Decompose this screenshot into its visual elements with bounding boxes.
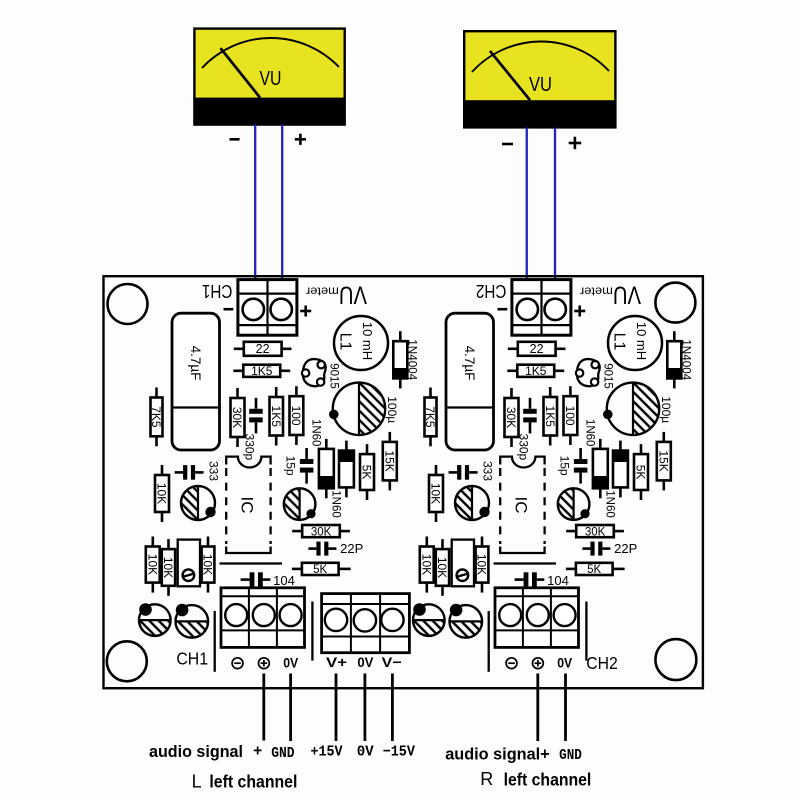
svg-text:22: 22 [256, 342, 270, 356]
svg-text:0V: 0V [357, 744, 374, 761]
mounting hole top-right [655, 283, 695, 323]
label R [480, 769, 493, 789]
wire stub CH1 plus [262, 674, 265, 741]
label CH2 (rotated, top connector) [476, 281, 507, 302]
PCB board outline [104, 276, 703, 688]
svg-text:1N4004: 1N4004 [406, 339, 418, 381]
svg-text:333: 333 [207, 461, 221, 481]
wire M1+ to CH1 connector [281, 125, 283, 280]
label CH1 (bottom) [176, 649, 208, 669]
transistor 9015 [302, 359, 340, 389]
label GND (right) [559, 747, 582, 764]
svg-text:330p: 330p [243, 434, 257, 461]
wire M1- to CH1 connector [254, 125, 256, 280]
capacitor 100u electrolytic [329, 383, 399, 436]
mounting hole top-left [108, 284, 148, 324]
VU meter M1 scale arc [202, 38, 339, 68]
label CH1 (rotated, top connector) [202, 281, 233, 302]
pin label V- [382, 654, 402, 670]
diode 1N4004 [393, 331, 417, 388]
svg-text:CH2: CH2 [586, 653, 618, 673]
capacitor 330p [243, 398, 263, 461]
terminal + label (M2) [569, 137, 582, 150]
pin label V+ [326, 654, 347, 670]
connector pin + label [300, 306, 311, 317]
resistor 100 [289, 386, 303, 445]
diode 1N60 (second) [330, 441, 354, 518]
svg-text:VU: VU [339, 280, 367, 308]
mounting hole bottom-right [655, 639, 696, 680]
connector audio 3-pin terminal block [221, 588, 305, 648]
connector CH-VU 2-pin terminal block [238, 280, 297, 336]
svg-text:30K: 30K [230, 407, 244, 428]
pin label 0V [283, 656, 298, 671]
mounting hole bottom-left [107, 641, 147, 681]
resistor 7K5 [149, 388, 163, 447]
svg-text:5K: 5K [313, 564, 327, 576]
svg-text:100µ: 100µ [385, 396, 399, 423]
svg-text:10K: 10K [145, 554, 159, 575]
resistor 1K5 (vertical) [269, 387, 283, 446]
wire stub CH1 0V [289, 674, 292, 742]
svg-text:10K: 10K [155, 483, 169, 504]
capacitor 333 [175, 461, 221, 481]
VU meter M2 label VU [529, 74, 552, 96]
label GND (left) [271, 745, 294, 762]
wire stub V- [391, 674, 394, 742]
pin label minus-circle [232, 658, 243, 669]
svg-text:+: + [253, 743, 262, 760]
resistor 1K5 (top) [233, 364, 290, 378]
svg-text:10 mH: 10 mH [360, 322, 375, 360]
svg-text:left channel: left channel [209, 772, 297, 792]
VU meter M1 label VU [260, 68, 282, 90]
svg-text:GND: GND [559, 747, 582, 764]
wire stub CH2 0V [564, 674, 567, 742]
connector pin - label [224, 308, 234, 311]
svg-text:10K: 10K [201, 554, 215, 575]
svg-text:VU: VU [529, 74, 552, 96]
connector power 3-pin terminal block [322, 594, 410, 653]
svg-text:0V: 0V [283, 656, 298, 671]
wire stub 0V [363, 674, 366, 742]
svg-text:10K: 10K [161, 557, 175, 578]
svg-text:1N60: 1N60 [330, 490, 342, 518]
label audio signal (left) [149, 742, 243, 761]
svg-text:CH1: CH1 [176, 649, 208, 669]
capacitor electrolytic (left of IC) [181, 486, 216, 520]
wire stub CH2 plus [536, 674, 539, 742]
trimmer potentiometer [178, 540, 200, 587]
svg-text:15p: 15p [284, 456, 298, 476]
svg-text:15K: 15K [382, 450, 396, 471]
VU meter M2 (right panel) [464, 31, 615, 127]
svg-text:IC: IC [238, 497, 257, 514]
svg-text:L1: L1 [337, 333, 354, 351]
svg-text:meter: meter [306, 284, 339, 297]
resistor 10K (bottom row 3) [201, 537, 215, 593]
svg-text:30K: 30K [311, 526, 332, 538]
svg-text:CH1: CH1 [202, 281, 233, 302]
svg-text:4.7µF: 4.7µF [188, 346, 203, 381]
svg-text:left channel: left channel [504, 770, 592, 790]
pin label 0V (power) [357, 654, 374, 670]
VU meter M2 needle [490, 51, 530, 100]
inductor L1 10mH [334, 316, 388, 370]
right channel components group (duplicate) [413, 280, 692, 672]
svg-text:audio signal: audio signal [149, 742, 243, 761]
wire M2+ to CH2 connector [554, 128, 556, 280]
terminal - label (M1) [230, 138, 240, 141]
label L [192, 772, 202, 792]
capacitor 22P [308, 541, 363, 556]
svg-text:9015: 9015 [328, 363, 340, 389]
capacitor electrolytic out B [176, 604, 209, 638]
capacitor 4.7uF [172, 313, 220, 450]
VU meter M1 needle [221, 48, 261, 98]
svg-text:22P: 22P [340, 541, 363, 556]
resistor 22 [234, 342, 292, 356]
label VU meter (rotated) [306, 280, 367, 308]
svg-text:V+: V+ [326, 654, 347, 670]
svg-text:GND: GND [271, 745, 294, 762]
capacitor 15p [284, 448, 314, 484]
left channel components group [139, 280, 418, 672]
terminal + label (M1) [295, 134, 306, 145]
label 0V (bottom) [357, 744, 374, 761]
label +15V [311, 744, 343, 761]
wire stub V+ [335, 674, 338, 742]
svg-text:1K5: 1K5 [251, 364, 273, 378]
resistor 10K (bottom row 1) [145, 537, 159, 593]
svg-text:7K5: 7K5 [149, 406, 163, 428]
resistor 10K (upper-left) [155, 465, 169, 522]
svg-text:V−: V− [382, 654, 402, 670]
svg-text:0V: 0V [357, 654, 374, 670]
svg-text:5K: 5K [360, 465, 374, 480]
resistor 30K (horizontal) [292, 525, 350, 538]
wire M2- to CH2 connector [526, 128, 528, 280]
label -15V [383, 744, 415, 761]
capacitor electrolytic (right of IC) [284, 488, 316, 520]
svg-text:1K5: 1K5 [269, 406, 283, 428]
VU meter M2 scale arc [472, 41, 609, 72]
resistor 5K (horizontal) [292, 563, 351, 576]
label audio signal+ (right) [445, 744, 550, 763]
svg-text:100: 100 [289, 406, 303, 426]
label left channel (left) [209, 772, 297, 792]
wire below IC [220, 562, 283, 564]
svg-text:L: L [192, 772, 202, 792]
pin label plus-circle [259, 658, 270, 669]
capacitor 104 [241, 572, 295, 588]
svg-text:+15V: +15V [311, 744, 343, 761]
svg-text:audio signal+: audio signal+ [445, 744, 550, 763]
label + (left) [253, 743, 262, 760]
label CH2 (bottom) [586, 653, 618, 673]
resistor 30K (vertical) [230, 388, 244, 447]
separator line right [311, 602, 313, 661]
svg-text:−15V: −15V [383, 744, 415, 761]
resistor 15K [382, 432, 396, 491]
op-amp IC (dashed outline) [226, 457, 270, 553]
svg-text:104: 104 [273, 573, 295, 588]
terminal - label (M2) [502, 143, 513, 146]
label left channel (right) [504, 770, 592, 790]
svg-text:VU: VU [260, 68, 282, 90]
diode 1N60 (first) [310, 419, 334, 498]
resistor 5K (vertical) [360, 444, 374, 500]
svg-text:R: R [480, 769, 493, 789]
svg-text:1N60: 1N60 [310, 419, 322, 447]
capacitor electrolytic out A [139, 603, 171, 636]
resistor 10K (bottom row 2) [161, 539, 175, 596]
svg-text:CH2: CH2 [476, 281, 507, 302]
VU meter M1 (left panel) [194, 29, 344, 125]
separator line left [214, 611, 216, 672]
